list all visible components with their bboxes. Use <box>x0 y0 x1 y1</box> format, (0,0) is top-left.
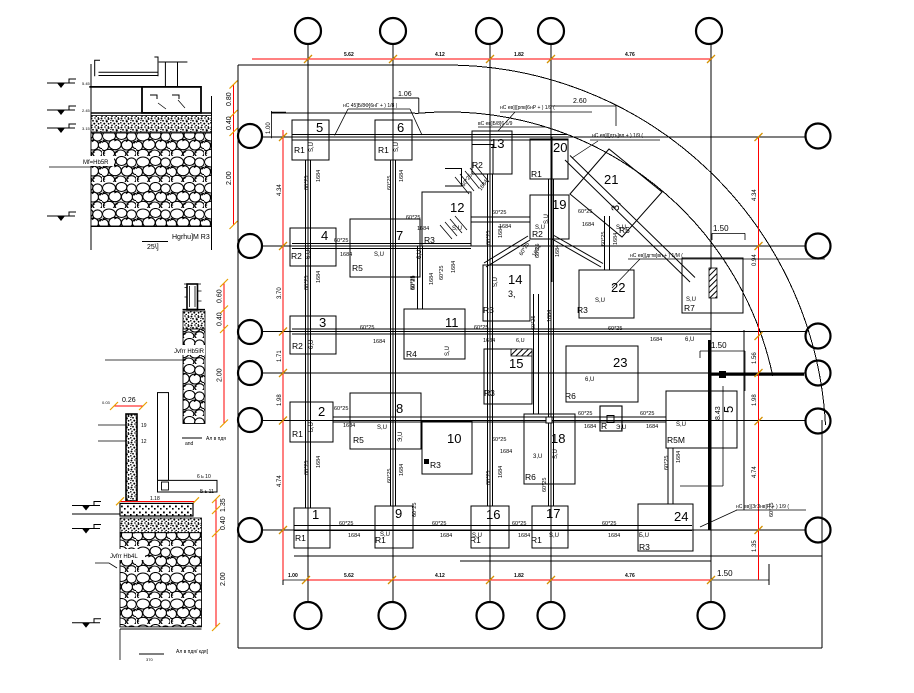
outer curve of building <box>447 65 826 425</box>
footing 24 <box>638 504 693 551</box>
footing 5 <box>292 120 329 160</box>
detail C red top of footing <box>120 500 195 502</box>
grid circle bottom 1 <box>295 602 322 629</box>
svg-text:Э,U: Э,U <box>398 432 404 442</box>
footing 19 <box>530 195 569 239</box>
plan frame right edge <box>821 420 823 648</box>
svg-text:17: 17 <box>546 506 560 521</box>
detail B ground line <box>183 309 206 311</box>
building bottom edge <box>294 555 822 557</box>
detail A ground line <box>91 112 212 114</box>
svg-text:60*25: 60*25 <box>608 326 622 332</box>
svg-text:4.74: 4.74 <box>752 466 758 478</box>
svg-text:R1: R1 <box>531 169 542 179</box>
svg-text:60*25: 60*25 <box>664 456 670 470</box>
svg-text:16: 16 <box>486 507 500 522</box>
detail B rubble band <box>183 329 205 424</box>
svg-text:1684: 1684 <box>399 170 405 182</box>
svg-text:R1: R1 <box>531 535 542 545</box>
grid line col 2 <box>392 44 394 602</box>
footing R7 hatched bar <box>709 268 717 298</box>
detail A top bracket <box>95 60 100 76</box>
svg-text:3,: 3, <box>610 202 622 211</box>
strip footing beams horizontal <box>292 135 711 531</box>
svg-text:1.98: 1.98 <box>277 394 283 406</box>
svg-text:S,U: S,U <box>595 298 605 304</box>
svg-text:R3: R3 <box>639 542 650 552</box>
svg-text:4.76: 4.76 <box>625 573 635 579</box>
footing 10 <box>422 421 472 474</box>
detail C footing slab <box>120 503 193 516</box>
detail A level marks <box>47 79 76 88</box>
detail A rebar hooks in block <box>150 95 179 99</box>
svg-text:60*25: 60*25 <box>486 471 492 485</box>
detail A concrete stipple band <box>91 116 212 133</box>
footing 2 <box>290 402 333 442</box>
detail C wall stem <box>126 414 137 501</box>
svg-text:60*25: 60*25 <box>360 325 374 331</box>
detail C level marks <box>72 502 101 511</box>
svg-text:19: 19 <box>552 197 566 212</box>
grid line col 3 <box>489 44 491 602</box>
svg-text:1.82: 1.82 <box>514 52 524 58</box>
svg-text:and: and <box>185 441 194 447</box>
svg-text:5.45: 5.45 <box>82 81 91 86</box>
svg-text:1684: 1684 <box>500 449 512 455</box>
top red dimension line <box>252 58 712 60</box>
grid line col 4 <box>550 44 552 602</box>
svg-text:60*25: 60*25 <box>339 521 353 527</box>
svg-text:60*25: 60*25 <box>334 238 348 244</box>
right dim extension lines <box>743 330 745 510</box>
grid circle left 2 <box>238 234 262 258</box>
thick ramp wall col 4 <box>550 137 552 282</box>
detail B scale bar <box>182 437 202 439</box>
svg-text:1.35: 1.35 <box>220 498 227 512</box>
svg-text:1684: 1684 <box>451 261 457 273</box>
beam row 6 <box>294 526 692 531</box>
plan frame top edge <box>238 64 447 66</box>
svg-text:R3: R3 <box>424 235 435 245</box>
svg-text:370: 370 <box>146 657 153 662</box>
detail B leader and label <box>105 359 183 361</box>
svg-text:R3: R3 <box>430 460 441 470</box>
svg-text:1: 1 <box>312 507 319 522</box>
grid circle left 3 <box>238 320 262 344</box>
footing 8 <box>350 393 421 449</box>
svg-text:0.26: 0.26 <box>122 397 136 404</box>
footing 9 <box>375 506 413 548</box>
svg-text:Jvfrr Hb4L: Jvfrr Hb4L <box>110 554 138 560</box>
svg-text:2.60: 2.60 <box>573 98 587 105</box>
S,U small labels <box>306 142 696 539</box>
grid circle right 6 <box>806 518 831 543</box>
grid circle top 5 <box>696 18 722 44</box>
svg-text:Ал в пдя: Ал в пдя <box>206 436 226 442</box>
svg-text:1.50: 1.50 <box>711 341 727 350</box>
svg-text:R1: R1 <box>295 533 306 543</box>
svg-text:1684: 1684 <box>582 222 594 228</box>
detail A right edge <box>211 96 213 250</box>
beam 12 to 11 <box>418 246 423 309</box>
svg-text:R5: R5 <box>352 263 363 273</box>
dim 2.60 <box>551 106 616 126</box>
beam row 2 <box>292 244 471 249</box>
svg-text:2: 2 <box>318 404 325 419</box>
svg-text:1684: 1684 <box>316 271 322 283</box>
footing 15 hatched bar <box>511 349 532 356</box>
thick wall line row 4 right <box>708 373 804 376</box>
svg-text:Hgrhu]M R3: Hgrhu]M R3 <box>172 234 210 241</box>
svg-text:4.12: 4.12 <box>435 52 445 58</box>
detail C second panel <box>158 393 169 481</box>
footing 12 <box>422 192 471 246</box>
beam 12 to 19 <box>471 217 530 222</box>
svg-text:1684: 1684 <box>399 464 405 476</box>
svg-text:вС ев]Б/8]6 1/9: вС ев]Б/8]6 1/9 <box>478 121 513 127</box>
detail C scale bar <box>139 653 164 655</box>
svg-text:1684: 1684 <box>340 252 352 258</box>
detail C rubble band <box>120 533 202 627</box>
svg-text:R6: R6 <box>525 472 536 482</box>
svg-text:12: 12 <box>141 439 147 445</box>
beam row 3 <box>292 329 711 334</box>
footing 3 <box>290 316 336 354</box>
svg-text:9: 9 <box>395 506 402 521</box>
svg-text:Б ь 11: Б ь 11 <box>200 489 214 495</box>
svg-text:1.06: 1.06 <box>398 91 412 98</box>
ramp diagonal beams <box>565 156 695 283</box>
footing 17 <box>532 506 568 548</box>
grid line col 5 <box>710 44 712 602</box>
svg-text:60*25: 60*25 <box>410 276 416 290</box>
grid circles bottom row <box>295 602 725 629</box>
svg-text:S,U: S,U <box>686 297 696 303</box>
svg-text:S,U: S,U <box>380 532 390 538</box>
ramp hatch near 12 <box>440 216 467 239</box>
svg-text:15: 15 <box>509 356 523 371</box>
footing 7 <box>350 219 420 277</box>
svg-text:6,U: 6,U <box>309 340 315 349</box>
grid line col 1 <box>307 44 309 602</box>
grid circles right column <box>806 124 831 543</box>
svg-text:S,U: S,U <box>472 533 482 539</box>
ramp hatch near 13 <box>455 165 489 194</box>
footing 4 <box>290 228 336 266</box>
footing 5 right <box>666 391 737 448</box>
grid circle top 3 <box>476 18 502 44</box>
svg-text:6,U: 6,U <box>585 377 594 383</box>
svg-text:S,U: S,U <box>676 422 686 428</box>
svg-text:1684: 1684 <box>646 424 658 430</box>
dim 1.00 top left <box>271 111 286 138</box>
svg-text:4.74: 4.74 <box>277 475 283 487</box>
svg-text:R3: R3 <box>484 388 495 398</box>
svg-text:S,U: S,U <box>377 425 387 431</box>
svg-text:R2: R2 <box>292 341 303 351</box>
svg-text:60*25: 60*25 <box>512 521 526 527</box>
beam col 24 <box>668 448 673 504</box>
svg-text:13: 13 <box>490 136 504 151</box>
svg-text:1684: 1684 <box>555 245 561 257</box>
svg-text:20: 20 <box>553 140 567 155</box>
svg-text:1684: 1684 <box>498 226 504 238</box>
svg-text:19: 19 <box>141 423 147 429</box>
svg-text:R6: R6 <box>565 391 576 401</box>
svg-text:8.43: 8.43 <box>715 406 722 420</box>
svg-text:1.35: 1.35 <box>752 540 758 552</box>
svg-text:23: 23 <box>613 355 627 370</box>
beam row 1 <box>292 135 568 141</box>
svg-text:2.00: 2.00 <box>217 368 224 382</box>
svg-text:1684: 1684 <box>676 451 682 463</box>
svg-text:5: 5 <box>316 120 323 135</box>
svg-text:10: 10 <box>447 431 461 446</box>
svg-text:22: 22 <box>611 280 625 295</box>
svg-text:60*25: 60*25 <box>492 437 506 443</box>
svg-text:S,U: S,U <box>452 226 462 232</box>
detail A column above <box>159 62 188 86</box>
svg-text:3,U: 3,U <box>533 454 542 460</box>
rotated ramp slab 21 <box>570 149 662 237</box>
svg-text:1684: 1684 <box>608 533 620 539</box>
footing 18 <box>524 414 575 484</box>
svg-text:S,U: S,U <box>445 346 451 356</box>
svg-text:1684: 1684 <box>429 273 435 285</box>
svg-text:21: 21 <box>604 172 618 187</box>
grid horizontal lines <box>262 137 806 530</box>
beam col 3 <box>488 174 493 506</box>
svg-text:1684: 1684 <box>348 533 360 539</box>
svg-text:6,U: 6,U <box>516 338 525 344</box>
detail C stipple band <box>120 518 202 533</box>
svg-text:Ал в пдя/ кдя]: Ал в пдя/ кдя] <box>176 649 209 655</box>
detail A red dimension line <box>233 85 235 225</box>
svg-text:60*25: 60*25 <box>486 231 492 245</box>
svg-text:24: 24 <box>674 509 688 524</box>
svg-text:Э,U: Э,U <box>616 425 626 431</box>
footing 13 inner step <box>472 145 493 175</box>
dim 1.50 mid right <box>700 351 745 391</box>
detail A bottom line <box>91 226 212 228</box>
detail C panel bottom L <box>158 480 218 492</box>
grid circle top 1 <box>295 18 321 44</box>
svg-text:60*25: 60*25 <box>601 232 607 246</box>
plan frame left edge <box>237 65 239 648</box>
grid vertical lines <box>308 44 711 602</box>
svg-text:6,U: 6,U <box>306 250 312 259</box>
svg-text:1684: 1684 <box>498 466 504 478</box>
grid line row 6 <box>262 529 806 531</box>
detail A left edge <box>90 64 92 250</box>
footing 6 <box>375 120 412 160</box>
beam col 2 <box>391 160 396 506</box>
svg-text:S,U: S,U <box>374 252 384 258</box>
svg-text:14: 14 <box>508 272 522 287</box>
detail C bottom line <box>120 628 202 630</box>
grid circle right 1 <box>806 124 831 149</box>
grid circles top row <box>295 18 722 44</box>
beam col 4 <box>549 179 554 506</box>
svg-text:6,U: 6,U <box>417 250 423 259</box>
grid line row 4 <box>262 372 806 374</box>
detail A top of footing thick line <box>89 86 200 88</box>
svg-text:25\]: 25\] <box>147 244 159 251</box>
beam 15 to 18 <box>534 294 539 414</box>
svg-text:1684: 1684 <box>650 337 662 343</box>
svg-text:8: 8 <box>396 401 403 416</box>
grid line row 5 <box>262 420 806 422</box>
svg-text:R: R <box>601 421 607 431</box>
beam ramp to 22 <box>605 216 610 270</box>
svg-text:1.71: 1.71 <box>277 350 283 362</box>
svg-text:60*25: 60*25 <box>304 461 310 475</box>
grid circle right 2 <box>806 234 831 259</box>
svg-text:нС ев]([рпв]6нР + ) 1/9 (: нС ев]([рпв]6нР + ) 1/9 ( <box>500 105 555 111</box>
svg-text:нС ев]([дть]вл + ) 1/9 (: нС ев]([дть]вл + ) 1/9 ( <box>592 133 643 139</box>
footing 20 <box>530 139 568 179</box>
junction square footing 10 <box>424 459 429 464</box>
svg-text:60*25: 60*25 <box>640 411 654 417</box>
svg-text:60*25: 60*25 <box>304 276 310 290</box>
inner curve of building <box>415 112 773 376</box>
svg-text:S,U: S,U <box>535 225 545 231</box>
svg-text:6 ь 10: 6 ь 10 <box>197 474 211 480</box>
svg-text:1684: 1684 <box>613 233 619 245</box>
detail A double wall lines <box>99 72 158 75</box>
svg-text:R5: R5 <box>353 435 364 445</box>
footing 1 <box>294 508 330 548</box>
footing R7 box <box>682 258 743 313</box>
svg-text:4: 4 <box>321 228 328 243</box>
svg-text:1684: 1684 <box>440 533 452 539</box>
detail A right bracket <box>154 57 158 76</box>
svg-text:R3: R3 <box>577 305 588 315</box>
detail C leader and label <box>109 549 145 560</box>
svg-text:R1: R1 <box>378 145 389 155</box>
svg-text:R4: R4 <box>406 349 417 359</box>
svg-text:60*25: 60*25 <box>531 316 537 330</box>
dim 1.50 right upper <box>712 233 745 240</box>
svg-text:60*25: 60*25 <box>304 176 310 190</box>
svg-text:Mf=Hb5R: Mf=Hb5R <box>83 160 109 166</box>
grid circle bottom 5 <box>698 602 725 629</box>
building notch near 13 <box>445 169 462 187</box>
grid circle left 6 <box>238 518 262 542</box>
detail C red dim line <box>215 499 217 627</box>
svg-text:0.40: 0.40 <box>226 116 233 130</box>
grid circle bottom 4 <box>538 602 565 629</box>
building bottom edge inner <box>460 560 711 562</box>
svg-text:1.50: 1.50 <box>717 569 733 578</box>
plan frame bottom edge <box>238 647 822 649</box>
svg-text:5.62: 5.62 <box>344 573 354 579</box>
svg-text:6: 6 <box>397 120 404 135</box>
svg-text:1.00: 1.00 <box>288 573 298 579</box>
svg-text:R5М: R5М <box>667 435 685 445</box>
diagonal beam 19 to 22 <box>552 236 603 268</box>
beam junction box <box>600 406 622 431</box>
svg-text:0.40: 0.40 <box>217 312 224 326</box>
grid circle left 4 <box>238 361 262 385</box>
svg-text:0.60: 0.60 <box>217 289 224 303</box>
svg-text:нС 45]Б/8Ф]6нГ + ) 1/8 |: нС 45]Б/8Ф]6нГ + ) 1/8 | <box>343 103 397 109</box>
footing 14 <box>483 265 530 321</box>
grid circle left 5 <box>238 408 262 432</box>
svg-text:R7: R7 <box>684 303 695 313</box>
svg-text:0.40: 0.40 <box>220 516 227 530</box>
svg-text:3.15: 3.15 <box>82 126 91 131</box>
left red dimension line <box>282 130 284 580</box>
svg-text:S,U: S,U <box>553 449 559 459</box>
svg-text:3.70: 3.70 <box>277 287 283 299</box>
svg-text:60*25: 60*25 <box>432 521 446 527</box>
svg-text:5.62: 5.62 <box>344 52 354 58</box>
svg-text:0.80: 0.80 <box>226 92 233 106</box>
svg-text:1.98: 1.98 <box>752 394 758 406</box>
svg-text:S,U: S,U <box>309 142 315 152</box>
grid circle bottom 3 <box>477 602 504 629</box>
svg-text:60*25: 60*25 <box>492 210 506 216</box>
dim 8.43 <box>680 386 723 486</box>
svg-text:2.00: 2.00 <box>220 572 227 586</box>
svg-text:4.12: 4.12 <box>435 573 445 579</box>
svg-text:1.18: 1.18 <box>150 496 160 502</box>
svg-text:S,U: S,U <box>493 277 499 287</box>
detail A footing block <box>142 87 201 113</box>
svg-text:1684: 1684 <box>417 226 429 232</box>
detail A scale bar <box>142 241 168 243</box>
svg-text:R3: R3 <box>483 305 494 315</box>
svg-text:нС ев](дгтв]вл + ) 1/М (: нС ев](дгтв]вл + ) 1/М ( <box>630 253 683 259</box>
detail B column <box>187 284 198 310</box>
thick wall line col 5 <box>708 340 711 530</box>
svg-text:4.34: 4.34 <box>752 189 758 201</box>
svg-text:1684: 1684 <box>547 310 553 322</box>
svg-text:60*25: 60*25 <box>578 411 592 417</box>
grid line row 3 <box>262 331 806 333</box>
grid circles left column <box>238 124 262 542</box>
footing 13 <box>472 131 512 174</box>
footing 22 <box>579 270 634 318</box>
detail C ground line left <box>72 513 120 515</box>
svg-text:60*25: 60*25 <box>474 325 488 331</box>
svg-text:S,U: S,U <box>549 533 559 539</box>
grid line row 2 <box>262 245 806 247</box>
svg-text:12: 12 <box>450 200 464 215</box>
bottom red dimension line <box>306 579 711 581</box>
svg-text:1684: 1684 <box>316 456 322 468</box>
grid circle right 4 <box>806 361 831 386</box>
wall node square <box>719 371 726 378</box>
svg-text:R1: R1 <box>292 429 303 439</box>
svg-text:Ь,U: Ь,U <box>309 422 315 432</box>
dim 1.06 <box>393 98 419 113</box>
detail A rubble band <box>91 133 212 226</box>
svg-text:60*25: 60*25 <box>542 478 548 492</box>
svg-text:S,U: S,U <box>616 225 626 231</box>
beam row 5 <box>333 417 666 422</box>
detail C leaders <box>98 425 126 441</box>
svg-text:18: 18 <box>551 431 565 446</box>
svg-text:1.50: 1.50 <box>713 224 729 233</box>
svg-text:1684: 1684 <box>584 424 596 430</box>
svg-text:60*25: 60*25 <box>578 209 592 215</box>
building top edge <box>271 112 415 114</box>
grid circle right 3 <box>806 324 831 349</box>
svg-text:0.94: 0.94 <box>752 254 758 266</box>
svg-text:2.00: 2.00 <box>226 171 233 185</box>
